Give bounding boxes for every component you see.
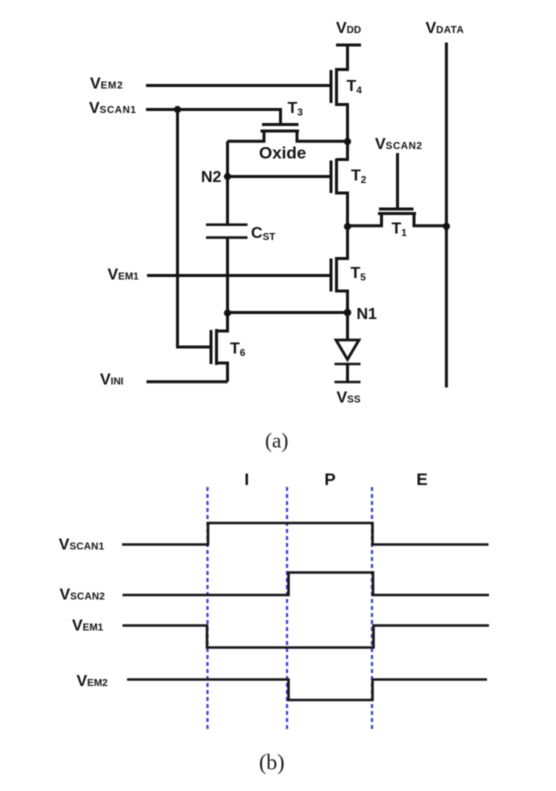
svg-text:Oxide: Oxide bbox=[259, 144, 306, 163]
svg-text:I: I bbox=[244, 470, 249, 489]
svg-text:(b): (b) bbox=[259, 750, 285, 775]
svg-text:P: P bbox=[324, 470, 335, 489]
svg-text:N2: N2 bbox=[201, 169, 222, 186]
svg-text:N1: N1 bbox=[357, 306, 378, 323]
svg-text:(a): (a) bbox=[265, 429, 288, 453]
svg-text:E: E bbox=[416, 470, 427, 489]
